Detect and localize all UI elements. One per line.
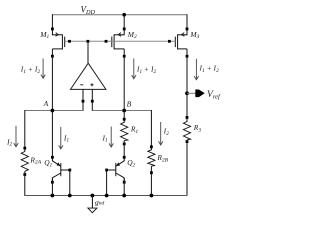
current arrow I1 Q1 branch	[59, 127, 63, 149]
wire R3 to rail	[186, 140, 188, 196]
wire node B to R1	[123, 111, 125, 123]
node Vref junction	[185, 91, 189, 95]
resistor R1	[121, 122, 128, 140]
wire R2B to rail	[150, 166, 152, 196]
node R3 bottom dot	[186, 140, 189, 143]
node rail Q1 base	[68, 194, 72, 198]
op-amp U1	[71, 63, 106, 89]
node Q2 emitter dot	[123, 156, 126, 159]
wire ground rail	[25, 195, 188, 197]
svg-text:B: B	[127, 99, 132, 108]
node R2A top dot	[23, 147, 26, 150]
svg-text:I1 + I2: I1 + I2	[20, 65, 41, 75]
node rail Q2 collector	[122, 194, 126, 198]
node Q2 collector dot	[123, 181, 126, 184]
wire opamp output	[87, 41, 89, 63]
current arrow I1+I2 left	[41, 59, 45, 79]
node R2B bottom dot	[150, 171, 153, 174]
Vref arrow	[195, 90, 204, 98]
transistor Q1	[52, 161, 69, 183]
node Q1 emitter dot	[51, 156, 54, 159]
node Q1 collector dot	[51, 181, 54, 184]
resistor R2A	[21, 152, 28, 172]
node VDD-M2 junction	[122, 13, 126, 17]
svg-text:I1 + I2: I1 + I2	[199, 64, 220, 74]
node M1 drain dot	[51, 55, 54, 58]
node Q1 base dot	[68, 169, 71, 172]
node B	[122, 109, 126, 113]
wire node B wire to R2B	[150, 110, 152, 150]
wire node A horizontal	[25, 110, 83, 112]
node M1 source dot	[51, 28, 54, 31]
node rail Q1 collector	[51, 194, 55, 198]
current arrow I1 R1 branch	[109, 127, 113, 148]
svg-text:I1 + I2: I1 + I2	[136, 65, 157, 75]
current arrow I2 left	[14, 126, 18, 147]
wire M2 drain to node B	[123, 56, 125, 111]
node M3 gate dot	[168, 40, 171, 43]
node A	[51, 109, 55, 113]
node R2B top dot	[150, 145, 153, 148]
node M2 drain dot	[123, 55, 126, 58]
node M1 gate dot	[68, 40, 71, 43]
wire node B horizontal	[92, 110, 151, 112]
wire M3 source	[186, 14, 188, 35]
wire opamp plus input	[91, 89, 93, 111]
wire VDD rail	[52, 14, 187, 16]
transistor M1	[52, 33, 64, 56]
node R2A bottom dot	[23, 173, 26, 176]
wire R1 to Q2 emitter	[123, 141, 125, 162]
node R1 top dot	[123, 118, 126, 121]
wire M1 source	[51, 14, 53, 35]
svg-text:A: A	[43, 99, 49, 108]
wire M3 drain down	[186, 56, 188, 122]
wire gate bus	[65, 40, 176, 42]
wire Q2 base to ground rail	[106, 170, 108, 196]
wire Q1 base to ground rail	[69, 170, 71, 196]
current arrow I2 R2B branch	[159, 122, 163, 145]
wire left branch vertical top	[24, 110, 26, 152]
resistor R2B	[148, 150, 155, 166]
resistor R3	[183, 122, 190, 140]
current arrow I1+I2 middle	[132, 59, 136, 79]
node opamp plus dot	[91, 100, 94, 103]
node Q2 base dot	[105, 169, 108, 172]
node M2 gate dot	[105, 40, 108, 43]
node R1 bottom dot	[123, 143, 126, 146]
node R3 top dot	[186, 116, 189, 119]
wire opamp minus input	[82, 89, 84, 111]
transistor M2	[112, 33, 124, 56]
wire M2 source	[123, 14, 125, 35]
wire Q2 collector to rail	[123, 178, 125, 196]
wire left branch vertical bottom	[24, 171, 26, 196]
node opamp minus dot	[82, 100, 85, 103]
wire Q1 collector to rail	[51, 178, 53, 196]
wire M1 drain to node A	[51, 56, 53, 111]
transistor Q2	[107, 161, 125, 183]
wire node A to Q1 emitter	[51, 111, 53, 162]
node rail ground	[91, 194, 95, 198]
node rail R2B	[150, 194, 154, 198]
node opamp out dot	[87, 40, 90, 43]
node M2 source dot	[123, 28, 126, 31]
ground	[88, 196, 97, 213]
current arrow I1+I2 right	[194, 59, 198, 80]
node rail Q2 base	[105, 194, 109, 198]
node M3 drain dot	[186, 55, 189, 58]
wire Vref lead	[187, 92, 196, 94]
node M3 source dot	[186, 28, 189, 31]
transistor M3	[175, 33, 187, 56]
